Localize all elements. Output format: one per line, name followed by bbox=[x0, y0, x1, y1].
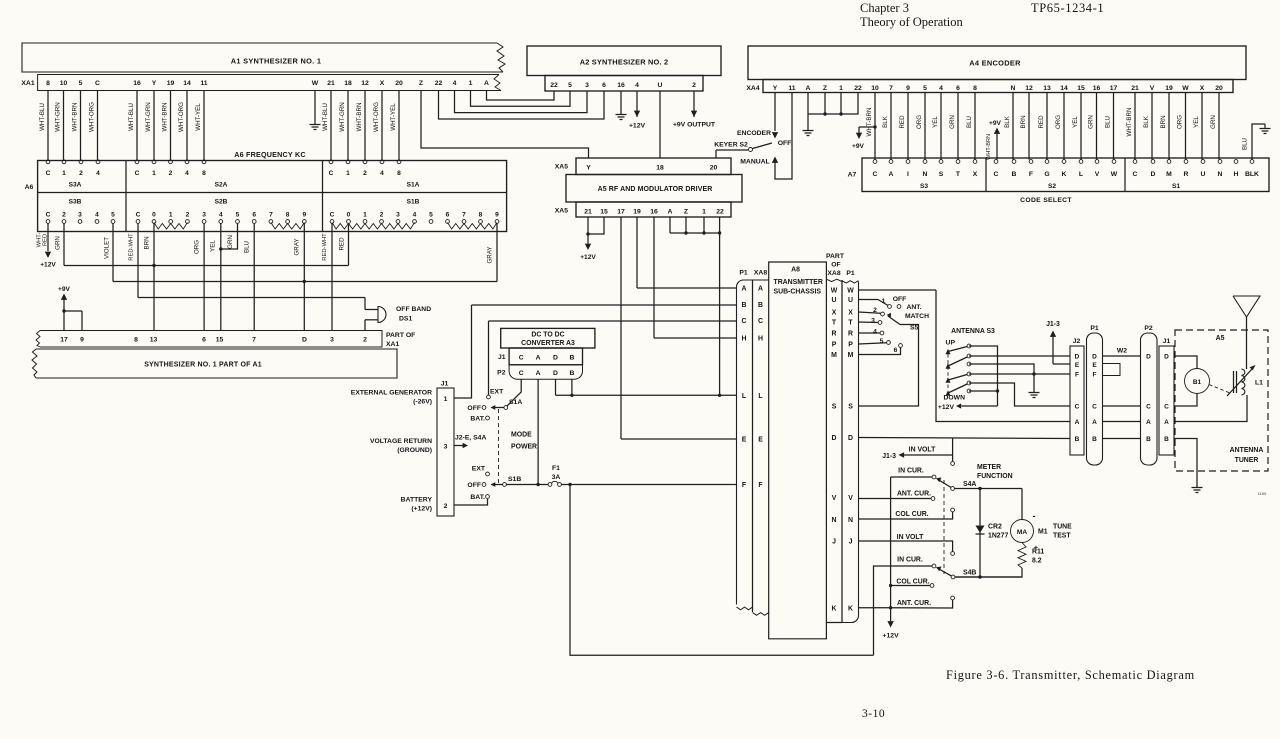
svg-text:VOLTAGE RETURN: VOLTAGE RETURN bbox=[370, 438, 432, 445]
svg-text:BLU: BLU bbox=[1242, 138, 1249, 150]
svg-text:SYNTHESIZER NO. 1 PART OF A1: SYNTHESIZER NO. 1 PART OF A1 bbox=[144, 362, 262, 369]
svg-text:WHT-BLU: WHT-BLU bbox=[128, 103, 135, 131]
svg-text:19: 19 bbox=[1165, 85, 1173, 92]
svg-text:D: D bbox=[553, 370, 558, 377]
svg-text:A6: A6 bbox=[25, 184, 34, 191]
svg-text:WHT-ORG: WHT-ORG bbox=[88, 102, 95, 132]
svg-text:J1: J1 bbox=[441, 381, 449, 388]
svg-text:S1B: S1B bbox=[407, 199, 420, 206]
svg-text:DS1: DS1 bbox=[399, 316, 412, 323]
svg-text:R: R bbox=[1184, 171, 1189, 178]
svg-text:S2B: S2B bbox=[215, 199, 228, 206]
svg-text:A: A bbox=[1075, 419, 1080, 426]
svg-text:4: 4 bbox=[635, 82, 639, 89]
svg-text:Chapter 3: Chapter 3 bbox=[860, 1, 909, 15]
svg-text:OFF: OFF bbox=[467, 405, 481, 412]
svg-text:DC TO DC: DC TO DC bbox=[531, 332, 564, 339]
svg-text:BLU: BLU bbox=[244, 241, 251, 253]
svg-text:3: 3 bbox=[444, 444, 448, 451]
svg-text:S4A: S4A bbox=[963, 481, 976, 488]
svg-text:6: 6 bbox=[202, 337, 206, 344]
svg-text:1: 1 bbox=[169, 212, 173, 219]
svg-text:17: 17 bbox=[1110, 85, 1118, 92]
svg-text:XA5: XA5 bbox=[555, 164, 568, 171]
svg-text:RED: RED bbox=[1038, 115, 1045, 129]
svg-text:+12V: +12V bbox=[883, 633, 900, 640]
svg-text:8: 8 bbox=[46, 80, 50, 87]
svg-text:ENCODER: ENCODER bbox=[737, 130, 771, 137]
svg-text:V: V bbox=[1150, 85, 1155, 92]
svg-text:BRN: BRN bbox=[144, 236, 151, 249]
svg-text:IN VOLT: IN VOLT bbox=[897, 534, 924, 541]
svg-text:X: X bbox=[973, 171, 978, 178]
svg-text:(-26V): (-26V) bbox=[413, 399, 432, 406]
svg-text:8: 8 bbox=[479, 212, 483, 219]
svg-text:20: 20 bbox=[710, 165, 718, 172]
svg-text:C: C bbox=[519, 370, 524, 377]
svg-text:J1-3: J1-3 bbox=[882, 453, 896, 460]
svg-text:S3A: S3A bbox=[69, 182, 82, 189]
svg-text:WHT-YEL: WHT-YEL bbox=[195, 103, 202, 131]
svg-text:Y: Y bbox=[773, 85, 778, 92]
svg-text:XA1: XA1 bbox=[386, 341, 399, 348]
svg-text:C: C bbox=[1164, 404, 1169, 411]
svg-text:ANT.: ANT. bbox=[906, 304, 921, 311]
svg-text:J1: J1 bbox=[498, 354, 506, 361]
svg-text:5: 5 bbox=[79, 80, 83, 87]
svg-text:C: C bbox=[873, 171, 878, 178]
svg-text:(GROUND): (GROUND) bbox=[397, 447, 432, 454]
svg-text:N: N bbox=[832, 517, 837, 524]
svg-text:A8: A8 bbox=[791, 267, 800, 274]
svg-text:IN VOLT: IN VOLT bbox=[909, 447, 936, 454]
svg-text:TUNER: TUNER bbox=[1235, 457, 1259, 464]
svg-text:R11: R11 bbox=[1032, 549, 1044, 556]
svg-text:A: A bbox=[806, 85, 811, 92]
svg-text:+12V: +12V bbox=[938, 404, 955, 411]
svg-text:PART OF: PART OF bbox=[386, 332, 415, 339]
svg-text:TEST: TEST bbox=[1053, 533, 1071, 540]
svg-text:W: W bbox=[312, 80, 319, 87]
svg-text:C: C bbox=[329, 170, 334, 177]
svg-text:Theory of Operation: Theory of Operation bbox=[860, 15, 963, 29]
svg-text:C: C bbox=[519, 355, 524, 362]
svg-text:XA8: XA8 bbox=[754, 270, 767, 277]
svg-text:0: 0 bbox=[152, 212, 156, 219]
svg-text:C: C bbox=[330, 212, 335, 219]
svg-text:J1: J1 bbox=[1163, 338, 1171, 345]
svg-text:6: 6 bbox=[252, 212, 256, 219]
svg-text:+12V: +12V bbox=[40, 262, 56, 269]
svg-text:WHT-YEL: WHT-YEL bbox=[390, 103, 397, 131]
svg-text:WHT-BRN: WHT-BRN bbox=[866, 108, 873, 137]
svg-text:0: 0 bbox=[347, 212, 351, 219]
svg-text:WHT-GRN: WHT-GRN bbox=[54, 102, 61, 132]
svg-text:ORG: ORG bbox=[194, 240, 201, 254]
svg-text:A: A bbox=[742, 286, 747, 293]
svg-text:C: C bbox=[46, 170, 51, 177]
svg-text:+9V: +9V bbox=[852, 143, 865, 150]
svg-text:9: 9 bbox=[302, 212, 306, 219]
svg-text:S1A: S1A bbox=[407, 182, 420, 189]
svg-text:MATCH: MATCH bbox=[905, 313, 929, 320]
svg-text:U: U bbox=[832, 297, 837, 304]
svg-text:H: H bbox=[1234, 171, 1239, 178]
svg-text:EXTERNAL GENERATOR: EXTERNAL GENERATOR bbox=[351, 390, 432, 397]
svg-text:A5: A5 bbox=[1216, 335, 1225, 342]
svg-text:12: 12 bbox=[1025, 85, 1033, 92]
svg-text:W: W bbox=[847, 288, 854, 295]
svg-text:S: S bbox=[832, 404, 837, 411]
svg-text:E: E bbox=[758, 437, 763, 444]
svg-text:C: C bbox=[1146, 404, 1151, 411]
svg-text:21: 21 bbox=[327, 80, 335, 87]
svg-text:F: F bbox=[758, 482, 762, 489]
svg-text:WHT-BRN: WHT-BRN bbox=[71, 103, 78, 132]
svg-text:P1: P1 bbox=[846, 270, 855, 277]
svg-text:8: 8 bbox=[134, 337, 138, 344]
svg-text:B: B bbox=[1146, 436, 1151, 443]
svg-text:22: 22 bbox=[435, 80, 443, 87]
svg-text:J2-E, S4A: J2-E, S4A bbox=[455, 435, 486, 442]
svg-text:K: K bbox=[1062, 171, 1067, 178]
svg-text:16: 16 bbox=[617, 82, 625, 89]
svg-text:3: 3 bbox=[585, 82, 589, 89]
svg-text:6: 6 bbox=[956, 85, 960, 92]
svg-text:K: K bbox=[832, 605, 837, 612]
svg-text:MA: MA bbox=[1017, 529, 1027, 536]
svg-text:J1-3: J1-3 bbox=[1046, 321, 1060, 328]
svg-text:3: 3 bbox=[330, 337, 334, 344]
svg-text:ANT. CUR.: ANT. CUR. bbox=[897, 600, 931, 607]
svg-text:C: C bbox=[758, 318, 763, 325]
svg-text:ORG: ORG bbox=[1176, 115, 1183, 129]
svg-text:ANT. CUR.: ANT. CUR. bbox=[897, 491, 931, 498]
svg-text:WHT-BRN: WHT-BRN bbox=[161, 103, 168, 132]
svg-text:BLU: BLU bbox=[966, 116, 973, 128]
svg-text:18: 18 bbox=[656, 165, 664, 172]
svg-text:9: 9 bbox=[80, 337, 84, 344]
svg-text:A5 RF AND MODULATOR DRIVER: A5 RF AND MODULATOR DRIVER bbox=[598, 186, 713, 193]
svg-text:11: 11 bbox=[200, 80, 207, 87]
svg-text:B: B bbox=[569, 355, 574, 362]
svg-text:COL CUR.: COL CUR. bbox=[895, 511, 928, 518]
svg-text:18: 18 bbox=[344, 80, 352, 87]
svg-text:YEL: YEL bbox=[210, 240, 217, 252]
svg-text:SUB-CHASSIS: SUB-CHASSIS bbox=[774, 289, 822, 296]
svg-text:CODE SELECT: CODE SELECT bbox=[1020, 197, 1072, 204]
svg-text:GRN: GRN bbox=[227, 235, 234, 249]
svg-text:11: 11 bbox=[788, 85, 795, 92]
svg-text:P: P bbox=[832, 342, 837, 349]
svg-text:WHT-GRN: WHT-GRN bbox=[339, 102, 346, 132]
svg-text:4: 4 bbox=[873, 329, 877, 336]
svg-text:+9V: +9V bbox=[989, 120, 1002, 127]
svg-text:F: F bbox=[1075, 372, 1079, 379]
svg-text:8: 8 bbox=[973, 85, 977, 92]
svg-text:12: 12 bbox=[361, 80, 369, 87]
svg-text:1: 1 bbox=[152, 170, 156, 177]
svg-text:8: 8 bbox=[202, 170, 206, 177]
svg-text:ANTENNA: ANTENNA bbox=[1230, 447, 1264, 454]
svg-text:M: M bbox=[1166, 171, 1172, 178]
svg-text:1: 1 bbox=[346, 170, 350, 177]
svg-text:A: A bbox=[1146, 419, 1151, 426]
svg-text:E: E bbox=[1075, 362, 1080, 369]
svg-text:22: 22 bbox=[854, 85, 862, 92]
svg-text:22: 22 bbox=[716, 209, 724, 216]
svg-text:BAT.: BAT. bbox=[470, 416, 485, 423]
svg-text:7: 7 bbox=[269, 212, 273, 219]
svg-text:METER: METER bbox=[977, 464, 1001, 471]
svg-text:WHT-ORG: WHT-ORG bbox=[178, 102, 185, 132]
svg-text:PART: PART bbox=[826, 253, 845, 260]
svg-text:M: M bbox=[831, 352, 837, 359]
svg-text:XA8: XA8 bbox=[827, 270, 840, 277]
svg-text:GRN: GRN bbox=[1210, 115, 1217, 129]
svg-text:4: 4 bbox=[380, 170, 384, 177]
svg-text:C: C bbox=[1075, 404, 1080, 411]
svg-text:A2 SYNTHESIZER NO. 2: A2 SYNTHESIZER NO. 2 bbox=[580, 58, 669, 67]
svg-text:6: 6 bbox=[446, 212, 450, 219]
svg-text:FUNCTION: FUNCTION bbox=[977, 473, 1013, 480]
svg-text:A: A bbox=[1164, 419, 1169, 426]
svg-text:E: E bbox=[1092, 362, 1097, 369]
svg-text:GRN: GRN bbox=[55, 236, 62, 250]
svg-text:1N277: 1N277 bbox=[988, 533, 1008, 540]
svg-text:X: X bbox=[832, 310, 837, 317]
svg-text:A4 ENCODER: A4 ENCODER bbox=[969, 59, 1021, 68]
svg-text:2: 2 bbox=[692, 82, 696, 89]
svg-text:GRAY: GRAY bbox=[294, 238, 301, 255]
svg-text:W: W bbox=[1182, 85, 1189, 92]
svg-text:A: A bbox=[889, 171, 894, 178]
svg-text:C: C bbox=[135, 170, 140, 177]
svg-text:9: 9 bbox=[495, 212, 499, 219]
svg-text:XA5: XA5 bbox=[555, 208, 568, 215]
svg-text:H: H bbox=[758, 336, 763, 343]
svg-text:21: 21 bbox=[584, 209, 592, 216]
svg-text:IN CUR.: IN CUR. bbox=[897, 557, 923, 564]
svg-text:A: A bbox=[484, 80, 489, 87]
svg-text:A1 SYNTHESIZER NO. 1: A1 SYNTHESIZER NO. 1 bbox=[231, 57, 322, 66]
svg-text:A: A bbox=[668, 209, 673, 216]
svg-text:K: K bbox=[848, 605, 853, 612]
svg-text:3: 3 bbox=[396, 212, 400, 219]
svg-text:15: 15 bbox=[600, 209, 608, 216]
svg-text:R: R bbox=[848, 331, 853, 338]
svg-text:TRANSMITTER: TRANSMITTER bbox=[774, 279, 823, 286]
svg-text:Y: Y bbox=[152, 80, 157, 87]
svg-text:BLK: BLK bbox=[1143, 115, 1150, 128]
svg-text:1: 1 bbox=[363, 212, 367, 219]
svg-text:1109: 1109 bbox=[1258, 491, 1267, 496]
svg-text:15: 15 bbox=[1077, 85, 1085, 92]
svg-text:P2: P2 bbox=[1144, 325, 1153, 332]
svg-text:13: 13 bbox=[1043, 85, 1051, 92]
svg-text:2: 2 bbox=[79, 170, 83, 177]
svg-text:A: A bbox=[536, 355, 541, 362]
svg-text:3: 3 bbox=[202, 212, 206, 219]
svg-text:3-10: 3-10 bbox=[862, 708, 885, 720]
svg-text:BAT.: BAT. bbox=[470, 494, 485, 501]
svg-text:C: C bbox=[1133, 171, 1138, 178]
svg-text:MODE: MODE bbox=[511, 432, 532, 439]
svg-text:15: 15 bbox=[216, 337, 224, 344]
svg-text:X: X bbox=[848, 310, 853, 317]
svg-text:BRN: BRN bbox=[1160, 115, 1167, 128]
svg-text:YEL: YEL bbox=[932, 116, 939, 128]
svg-text:YEL: YEL bbox=[1193, 116, 1200, 128]
svg-text:F: F bbox=[1029, 171, 1033, 178]
svg-text:EXT: EXT bbox=[490, 389, 504, 396]
svg-text:ORG: ORG bbox=[1055, 115, 1062, 129]
svg-text:I: I bbox=[907, 171, 909, 178]
svg-text:EXT: EXT bbox=[472, 466, 486, 473]
svg-text:8: 8 bbox=[397, 170, 401, 177]
svg-text:D: D bbox=[553, 355, 558, 362]
svg-text:S4B: S4B bbox=[963, 570, 976, 577]
svg-text:+12V: +12V bbox=[580, 254, 596, 261]
svg-text:19: 19 bbox=[633, 209, 641, 216]
svg-text:VIOLET: VIOLET bbox=[104, 237, 111, 259]
svg-text:Figure 3-6. Transmitter, Sche: Figure 3-6. Transmitter, Schematic Diagr… bbox=[946, 668, 1195, 682]
svg-text:D: D bbox=[1092, 354, 1097, 361]
svg-text:9: 9 bbox=[906, 85, 910, 92]
svg-text:D: D bbox=[1164, 354, 1169, 361]
svg-text:D: D bbox=[302, 337, 307, 344]
svg-text:ORG: ORG bbox=[916, 115, 923, 129]
svg-text:N: N bbox=[923, 171, 928, 178]
svg-text:R: R bbox=[832, 331, 837, 338]
svg-text:3: 3 bbox=[871, 318, 875, 325]
svg-text:RED: RED bbox=[339, 237, 346, 251]
svg-text:D: D bbox=[832, 435, 837, 442]
svg-text:+9V: +9V bbox=[58, 286, 71, 293]
svg-text:WHT-ORG: WHT-ORG bbox=[373, 102, 380, 132]
svg-text:D: D bbox=[1146, 354, 1151, 361]
svg-text:+12V: +12V bbox=[629, 123, 646, 130]
svg-text:7: 7 bbox=[462, 212, 466, 219]
svg-text:BRN: BRN bbox=[1020, 115, 1027, 128]
svg-text:F: F bbox=[1093, 372, 1097, 379]
svg-text:20: 20 bbox=[395, 80, 403, 87]
svg-text:M1: M1 bbox=[1038, 529, 1048, 536]
svg-text:19: 19 bbox=[167, 80, 175, 87]
svg-text:A7: A7 bbox=[848, 172, 857, 179]
svg-text:GRN: GRN bbox=[949, 115, 956, 129]
svg-text:2: 2 bbox=[444, 503, 448, 510]
svg-text:B: B bbox=[1092, 436, 1097, 443]
svg-text:16: 16 bbox=[133, 80, 141, 87]
svg-text:GRN: GRN bbox=[1087, 115, 1094, 129]
svg-text:BLU: BLU bbox=[1104, 116, 1111, 128]
svg-text:V: V bbox=[832, 495, 837, 502]
svg-text:L: L bbox=[742, 393, 746, 400]
svg-text:BLK: BLK bbox=[882, 115, 889, 128]
svg-text:IN CUR.: IN CUR. bbox=[898, 468, 924, 475]
svg-text:2: 2 bbox=[62, 212, 66, 219]
svg-text:XA4: XA4 bbox=[746, 85, 759, 92]
svg-text:W2: W2 bbox=[1117, 348, 1127, 355]
svg-text:V: V bbox=[1095, 171, 1100, 178]
svg-text:WHT-BRN: WHT-BRN bbox=[356, 103, 363, 132]
svg-text:UP: UP bbox=[946, 340, 956, 347]
svg-text:7: 7 bbox=[252, 337, 256, 344]
svg-text:W: W bbox=[831, 288, 838, 295]
svg-text:A: A bbox=[758, 286, 763, 293]
svg-text:+9V OUTPUT: +9V OUTPUT bbox=[673, 122, 716, 129]
svg-text:E: E bbox=[742, 437, 747, 444]
svg-text:1: 1 bbox=[62, 170, 66, 177]
svg-text:WHT-GRN: WHT-GRN bbox=[145, 102, 152, 132]
svg-text:D: D bbox=[848, 435, 853, 442]
svg-text:1: 1 bbox=[469, 80, 473, 87]
svg-text:H: H bbox=[742, 336, 747, 343]
svg-text:2: 2 bbox=[363, 337, 367, 344]
svg-text:C: C bbox=[46, 212, 51, 219]
svg-text:J: J bbox=[849, 539, 853, 546]
svg-text:13: 13 bbox=[150, 337, 158, 344]
svg-text:X: X bbox=[380, 80, 385, 87]
svg-text:CONVERTER A3: CONVERTER A3 bbox=[521, 340, 575, 347]
svg-text:WHT-BRN: WHT-BRN bbox=[986, 134, 992, 160]
svg-text:16: 16 bbox=[1093, 85, 1101, 92]
svg-text:WHT-BLU: WHT-BLU bbox=[322, 103, 329, 131]
svg-text:P1: P1 bbox=[1090, 325, 1099, 332]
svg-text:N: N bbox=[1011, 85, 1016, 92]
svg-text:WHT-BRN: WHT-BRN bbox=[1126, 108, 1133, 137]
svg-text:Z: Z bbox=[684, 209, 688, 216]
svg-text:S: S bbox=[848, 404, 853, 411]
svg-text:2: 2 bbox=[380, 212, 384, 219]
svg-text:POWER: POWER bbox=[511, 444, 537, 451]
svg-text:RED: RED bbox=[899, 115, 906, 129]
svg-text:B: B bbox=[1164, 436, 1169, 443]
svg-text:YEL: YEL bbox=[1072, 116, 1079, 128]
svg-text:B: B bbox=[1012, 171, 1017, 178]
svg-text:Z: Z bbox=[419, 80, 423, 87]
svg-text:6: 6 bbox=[894, 347, 898, 354]
svg-text:RED-WHT: RED-WHT bbox=[129, 233, 135, 261]
svg-text:22: 22 bbox=[550, 82, 558, 89]
svg-text:S5: S5 bbox=[910, 325, 919, 332]
svg-text:P1: P1 bbox=[739, 270, 748, 277]
svg-text:6: 6 bbox=[602, 82, 606, 89]
svg-text:RED-WHT: RED-WHT bbox=[322, 233, 328, 261]
svg-text:C: C bbox=[95, 80, 100, 87]
svg-text:1: 1 bbox=[702, 209, 706, 216]
svg-text:N: N bbox=[1218, 171, 1223, 178]
svg-text:KEYER S2: KEYER S2 bbox=[714, 142, 748, 149]
svg-text:XA1: XA1 bbox=[21, 80, 34, 87]
svg-text:3A: 3A bbox=[552, 474, 561, 481]
svg-text:MANUAL: MANUAL bbox=[740, 159, 769, 166]
svg-text:S: S bbox=[939, 171, 944, 178]
svg-text:ANTENNA S3: ANTENNA S3 bbox=[951, 328, 995, 335]
svg-text:TP65-1234-1: TP65-1234-1 bbox=[1031, 1, 1104, 15]
svg-text:WHT-BLU: WHT-BLU bbox=[39, 103, 46, 131]
svg-text:C: C bbox=[1092, 404, 1097, 411]
svg-text:7: 7 bbox=[889, 85, 893, 92]
svg-text:GRAY: GRAY bbox=[487, 246, 494, 263]
svg-text:S1: S1 bbox=[1172, 183, 1180, 190]
svg-text:G: G bbox=[1044, 171, 1049, 178]
svg-text:B1: B1 bbox=[1193, 379, 1202, 386]
svg-text:4: 4 bbox=[413, 212, 417, 219]
svg-text:21: 21 bbox=[1131, 85, 1139, 92]
svg-text:4: 4 bbox=[185, 170, 189, 177]
